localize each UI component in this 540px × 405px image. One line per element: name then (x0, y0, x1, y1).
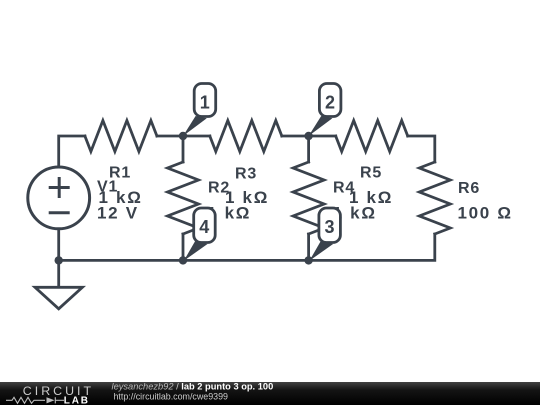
svg-text:12 V: 12 V (97, 204, 139, 223)
svg-text:http://circuitlab.com/cwe9399: http://circuitlab.com/cwe9399 (114, 391, 229, 401)
svg-text:R6: R6 (458, 180, 480, 197)
svg-text:R5: R5 (360, 165, 382, 182)
svg-text:100 Ω: 100 Ω (458, 204, 513, 223)
svg-text:R3: R3 (235, 166, 257, 183)
svg-text:LAB: LAB (64, 395, 90, 405)
svg-text:2: 2 (325, 92, 335, 112)
svg-text:3: 3 (324, 217, 334, 237)
svg-text:4: 4 (199, 217, 209, 237)
svg-text:1: 1 (200, 92, 210, 112)
svg-text:leysanchezb92 / lab 2 punto 3: leysanchezb92 / lab 2 punto 3 op. 100 (112, 382, 274, 392)
